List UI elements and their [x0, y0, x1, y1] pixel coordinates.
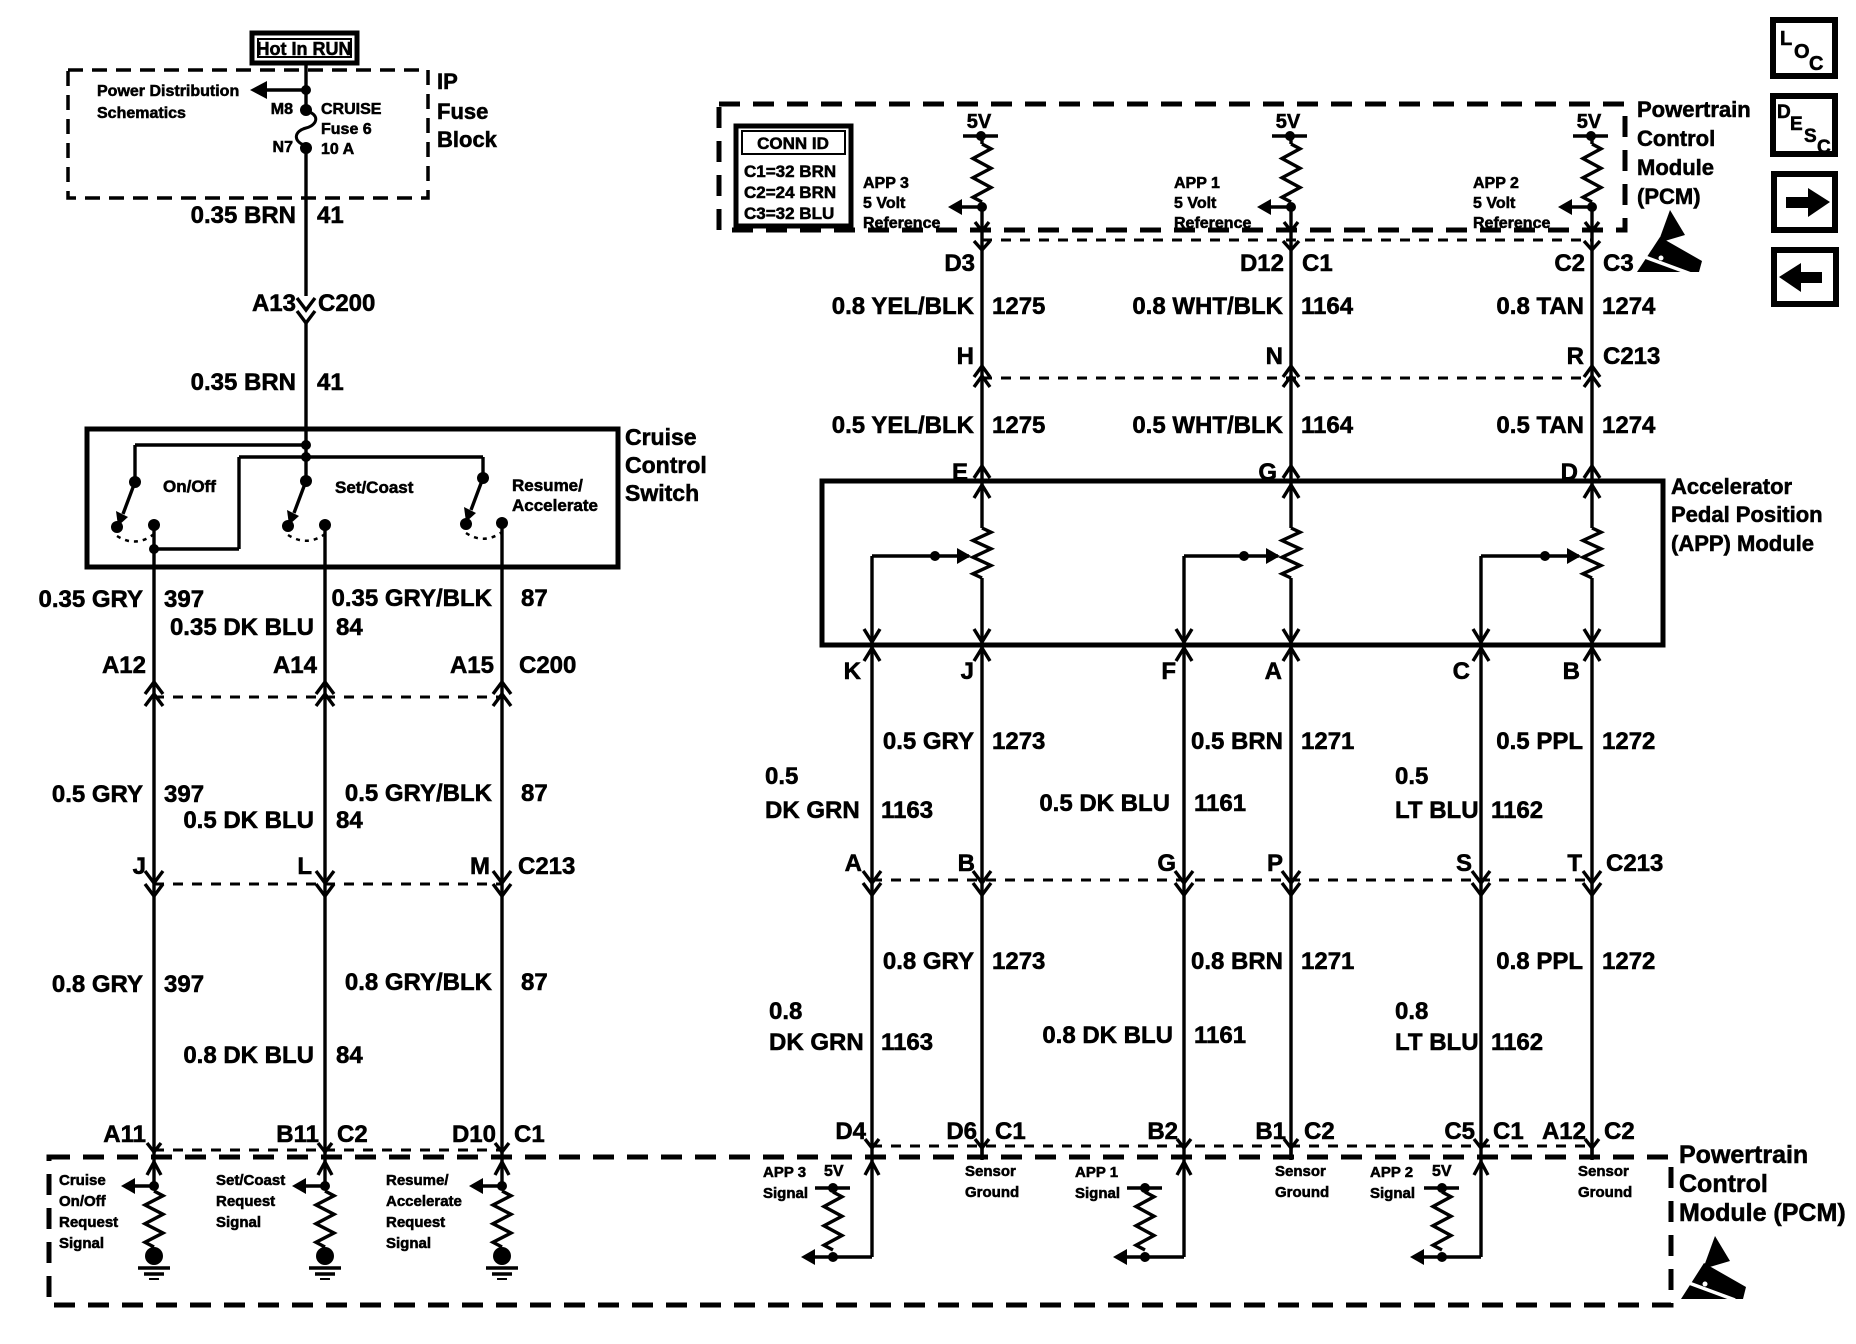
svg-text:1163: 1163	[881, 797, 933, 824]
label IP Fuse Block	[437, 69, 498, 152]
svg-text:N7: N7	[273, 139, 294, 156]
svg-text:397: 397	[164, 781, 204, 808]
svg-text:5 Volt: 5 Volt	[1174, 195, 1217, 212]
node junction APP 2 signal	[1437, 1252, 1447, 1262]
svg-text:APP 1: APP 1	[1075, 1164, 1118, 1181]
IP Fuse Block dashed box	[68, 70, 428, 198]
label Powertrain Control Module (PCM) bottom	[1679, 1141, 1846, 1227]
svg-text:C1=32 BRN: C1=32 BRN	[744, 162, 836, 181]
wire Set/Coast request signal entry	[318, 1159, 332, 1186]
svg-text:Resume/: Resume/	[386, 1172, 449, 1189]
svg-text:Reference: Reference	[863, 215, 940, 232]
svg-text:J: J	[961, 658, 974, 685]
svg-text:C2: C2	[1554, 250, 1585, 277]
svg-text:(PCM): (PCM)	[1637, 184, 1701, 209]
resistor APP 2 signal pull	[1433, 1192, 1451, 1250]
wire internal arrow APP 1 signal	[1113, 1249, 1184, 1265]
wire 397 GRY On/Off request	[152, 525, 155, 1159]
svg-text:CONN ID: CONN ID	[757, 134, 829, 153]
wire sensor ground stub A12	[1590, 1146, 1593, 1160]
svg-text:C213: C213	[518, 853, 575, 880]
label Sensor Ground	[965, 1163, 1019, 1201]
svg-text:Module (PCM): Module (PCM)	[1679, 1199, 1846, 1227]
svg-text:APP 2: APP 2	[1473, 175, 1519, 192]
svg-text:Ground: Ground	[965, 1184, 1019, 1201]
value label 0.35 BRN 41 (lower)	[191, 369, 344, 396]
svg-text:CRUISE: CRUISE	[321, 101, 382, 118]
svg-text:DK GRN: DK GRN	[769, 1029, 864, 1056]
svg-text:1274: 1274	[1602, 293, 1656, 320]
svg-text:APP 3: APP 3	[863, 175, 909, 192]
connector C213 pins J L M	[133, 853, 576, 880]
label Cruise On/Off Request Signal	[59, 1172, 118, 1252]
wire APP sensor 2 wiper output	[1473, 556, 1489, 645]
svg-text:M8: M8	[271, 101, 293, 118]
label Cruise Control Switch	[625, 424, 707, 506]
svg-text:0.8: 0.8	[769, 998, 802, 1025]
wire APP 2 reference exit	[1585, 207, 1599, 231]
svg-text:C2: C2	[1304, 1118, 1335, 1145]
svg-text:1271: 1271	[1301, 948, 1354, 975]
wire APP sensor 1 wiper output	[1176, 556, 1192, 645]
label APP 1 Signal 5V	[1075, 1164, 1120, 1202]
wire 1274 TAN upper	[1590, 230, 1593, 481]
node junction APP 1 reference	[1286, 202, 1296, 212]
svg-text:0.8 GRY/BLK: 0.8 GRY/BLK	[345, 969, 493, 996]
svg-text:E: E	[1790, 114, 1803, 135]
svg-text:T: T	[1567, 850, 1582, 877]
label Set/Coast Request Signal	[216, 1172, 285, 1231]
value label 0.5 GRY 397	[52, 781, 204, 808]
label APP 2 5 Volt Reference	[1473, 175, 1550, 232]
svg-text:Accelerator: Accelerator	[1671, 474, 1793, 499]
ground via ball terminal	[309, 1247, 341, 1279]
svg-text:APP 3: APP 3	[763, 1164, 806, 1181]
potentiometer APP sensor 3 element	[973, 481, 991, 645]
svg-text:Hot In RUN: Hot In RUN	[257, 39, 352, 59]
svg-text:D: D	[1777, 102, 1791, 123]
svg-text:0.35 BRN: 0.35 BRN	[191, 202, 296, 229]
cruise control switch box S1	[87, 429, 618, 567]
label CRUISE Fuse 6 10 A	[321, 101, 382, 158]
svg-text:C5: C5	[1444, 1118, 1475, 1145]
wire sensor ground stub B1	[1289, 1146, 1292, 1160]
svg-text:1272: 1272	[1602, 948, 1655, 975]
svg-text:C200: C200	[318, 290, 375, 317]
wire 87 GRY/BLK Resume/Accelerate request	[500, 523, 503, 1159]
svg-text:0.8: 0.8	[1395, 998, 1428, 1025]
svg-text:Request: Request	[386, 1214, 445, 1231]
APP module exit pins K J F A C B	[844, 648, 1600, 685]
connector C200 dashed line and chevrons	[145, 682, 511, 706]
svg-text:Control: Control	[1679, 1170, 1768, 1198]
PCM left connector dashed line and chevrons	[147, 1143, 509, 1152]
svg-text:C: C	[1817, 137, 1831, 158]
svg-text:5V: 5V	[1432, 1163, 1452, 1180]
CONN ID table	[736, 126, 851, 226]
potentiometer APP sensor 1 wiper	[1184, 548, 1280, 564]
svg-text:D4: D4	[835, 1118, 866, 1145]
svg-text:LT BLU: LT BLU	[1395, 797, 1479, 824]
label Sensor Ground	[1578, 1163, 1632, 1201]
svg-text:Module: Module	[1637, 155, 1714, 180]
value label 0.5 GRY 1273	[883, 728, 1046, 755]
svg-text:1274: 1274	[1602, 412, 1656, 439]
wire 1164 WHT/BLK upper	[1289, 230, 1292, 481]
wire internal arrow APP 2 signal	[1410, 1249, 1481, 1265]
node junction APP 3 signal	[828, 1252, 838, 1262]
value label 0.8 GRY 1273	[883, 948, 1046, 975]
svg-text:APP 1: APP 1	[1174, 175, 1220, 192]
svg-text:0.5 TAN: 0.5 TAN	[1496, 412, 1584, 439]
svg-text:S: S	[1804, 126, 1817, 147]
value label 0.8 DK BLU 1161	[1042, 1022, 1246, 1049]
svg-text:Cruise: Cruise	[625, 424, 697, 450]
svg-text:APP 2: APP 2	[1370, 1164, 1413, 1181]
svg-text:0.35 DK BLU: 0.35 DK BLU	[170, 614, 314, 641]
wire 1162 LT BLU	[1479, 645, 1482, 1159]
label Resume/Accelerate	[512, 476, 598, 515]
svg-text:87: 87	[521, 969, 548, 996]
label APP 3 5 Volt Reference	[863, 175, 940, 232]
svg-text:1273: 1273	[992, 948, 1045, 975]
svg-text:Sensor: Sensor	[1578, 1163, 1629, 1180]
svg-text:F: F	[1161, 658, 1176, 685]
svg-text:0.8 WHT/BLK: 0.8 WHT/BLK	[1132, 293, 1283, 320]
value label 0.35 DK BLU 84	[170, 614, 363, 641]
svg-text:Signal: Signal	[763, 1185, 808, 1202]
svg-text:C213: C213	[1603, 343, 1660, 370]
svg-text:0.8 GRY: 0.8 GRY	[883, 948, 974, 975]
accelerator pedal position APP module box	[822, 481, 1663, 645]
node Hot In RUN power tag	[252, 33, 357, 63]
svg-text:0.8 TAN: 0.8 TAN	[1496, 293, 1584, 320]
value label 0.8 GRY/BLK 87	[345, 969, 548, 996]
svg-text:397: 397	[164, 971, 204, 998]
connector C200 pins A12 A14 A15	[102, 652, 576, 679]
svg-text:Reference: Reference	[1473, 215, 1550, 232]
svg-text:0.5 BRN: 0.5 BRN	[1191, 728, 1283, 755]
svg-text:1164: 1164	[1301, 293, 1354, 320]
svg-text:5V: 5V	[1577, 111, 1602, 133]
svg-text:41: 41	[317, 202, 344, 229]
svg-text:Powertrain: Powertrain	[1679, 1141, 1808, 1169]
svg-text:A: A	[1265, 658, 1282, 685]
label APP 2 Signal 5V	[1370, 1163, 1452, 1202]
powertrain control module PCM dashed box (bottom)	[49, 1157, 1671, 1305]
svg-text:C213: C213	[1606, 850, 1663, 877]
svg-text:Sensor: Sensor	[965, 1163, 1016, 1180]
value label 0.5 PPL 1272	[1496, 728, 1655, 755]
svg-text:87: 87	[521, 585, 548, 612]
value label 0.5 DK BLU 84	[183, 807, 363, 834]
potentiometer APP sensor 2 element	[1583, 481, 1601, 645]
wire APP 1 signal entry	[1177, 1159, 1191, 1257]
value label 0.8 DK BLU 84	[183, 1042, 363, 1069]
value label 0.8 GRY 397	[52, 971, 204, 998]
value label 0.5 TAN 1274	[1496, 412, 1656, 439]
value label 0.5 DK GRN 1163	[765, 763, 933, 824]
svg-text:L: L	[297, 853, 312, 880]
wire 1161 DK BLU	[1182, 645, 1185, 1159]
svg-text:N: N	[1266, 343, 1283, 370]
wire internal arrow Cruise	[121, 1178, 154, 1194]
switch Resume/Accelerate pivot	[477, 472, 489, 484]
label Power Distribution Schematics	[97, 83, 239, 122]
label Set/Coast	[335, 478, 414, 497]
svg-text:1164: 1164	[1301, 412, 1354, 439]
svg-text:0.5 DK BLU: 0.5 DK BLU	[183, 807, 314, 834]
wire 41 BRN from C200 to cruise switch	[304, 323, 307, 431]
fuse F6 CRUISE element	[296, 111, 315, 148]
svg-text:Control: Control	[625, 452, 707, 478]
svg-text:Fuse 6: Fuse 6	[321, 121, 372, 138]
connector C213 pins A B G P S T	[845, 850, 1664, 877]
label APP 3 Signal 5V	[763, 1163, 844, 1202]
button previous arrow	[1774, 250, 1836, 304]
wire APP sensor 3 wiper output	[864, 556, 880, 645]
svg-text:B1: B1	[1255, 1118, 1286, 1145]
svg-text:5 Volt: 5 Volt	[1473, 195, 1516, 212]
wire 1271 BRN	[1289, 645, 1292, 1159]
fuse F6 CRUISE terminal N7	[273, 139, 312, 156]
svg-text:0.5 DK BLU: 0.5 DK BLU	[1039, 790, 1170, 817]
wire internal arrow Resume/	[469, 1178, 502, 1194]
potentiometer APP sensor 3 wiper	[872, 548, 971, 564]
wire On/Off output loop to bus	[154, 457, 239, 549]
svg-text:1163: 1163	[881, 1029, 933, 1056]
svg-text:1275: 1275	[992, 293, 1045, 320]
svg-text:0.5: 0.5	[765, 763, 798, 790]
svg-text:C1: C1	[1493, 1118, 1524, 1145]
svg-text:0.8 DK BLU: 0.8 DK BLU	[1042, 1022, 1173, 1049]
svg-text:K: K	[844, 658, 862, 685]
node junction Resume/ request	[497, 1181, 507, 1191]
svg-text:1273: 1273	[992, 728, 1045, 755]
ESD warning symbol bottom	[1681, 1236, 1746, 1300]
svg-text:0.5 GRY: 0.5 GRY	[883, 728, 974, 755]
value label 0.5 WHT/BLK 1164	[1132, 412, 1353, 439]
button next arrow	[1774, 174, 1835, 230]
svg-text:C1: C1	[995, 1118, 1026, 1145]
node feed junction upper	[301, 440, 311, 450]
potentiometer APP sensor 1 element	[1282, 481, 1300, 645]
value label 0.5 LT BLU 1162	[1395, 763, 1543, 824]
svg-text:Signal: Signal	[216, 1214, 261, 1231]
svg-text:M: M	[470, 853, 490, 880]
svg-text:A11: A11	[103, 1121, 146, 1148]
wire to power distribution schematics with arrow	[250, 81, 306, 99]
svg-text:B: B	[1563, 658, 1580, 685]
svg-text:0.8 GRY: 0.8 GRY	[52, 971, 143, 998]
resistor APP 2 5 volt reference	[1583, 136, 1601, 202]
PCM connector pins D4 D6 C1 B2 B1 C2 C5 C1 A12 C2	[835, 1118, 1634, 1145]
svg-text:0.5 WHT/BLK: 0.5 WHT/BLK	[1132, 412, 1283, 439]
wire internal arrow APP 1 reference	[1257, 199, 1291, 215]
potentiometer APP sensor 2 wiper	[1481, 548, 1581, 564]
value label 0.35 GRY 397	[39, 586, 205, 613]
svg-text:B11: B11	[276, 1121, 319, 1148]
label Accelerator Pedal Position (APP) Module	[1671, 474, 1823, 556]
value label 0.8 TAN 1274	[1496, 293, 1656, 320]
APP module pins E G D	[952, 459, 1600, 486]
switch Set/Coast pivot	[300, 475, 312, 487]
node 5V supply APP 2 signal	[1424, 1183, 1459, 1193]
wire internal arrow APP 3 reference	[948, 199, 982, 215]
svg-text:Sensor: Sensor	[1275, 1163, 1326, 1180]
wire internal arrow APP 3 signal	[801, 1249, 872, 1265]
resistor APP 1 5 volt reference	[1282, 136, 1300, 202]
svg-text:5V: 5V	[967, 111, 992, 133]
value label 0.5 YEL/BLK 1275	[832, 412, 1046, 439]
svg-text:Pedal Position: Pedal Position	[1671, 502, 1823, 527]
PCM connector pins A11 B11 C2 D10 C1	[103, 1121, 544, 1148]
wire internal arrow APP 2 reference	[1558, 199, 1592, 215]
svg-text:On/Off: On/Off	[59, 1193, 107, 1210]
switch Resume/Accelerate contacts with dashed arc	[460, 517, 508, 539]
svg-text:10 A: 10 A	[321, 141, 355, 158]
svg-text:1161: 1161	[1194, 1022, 1246, 1049]
value label 0.8 PPL 1272	[1496, 948, 1655, 975]
resistor APP 3 5 volt reference	[973, 136, 991, 202]
svg-text:A13: A13	[252, 290, 296, 317]
svg-text:Request: Request	[216, 1193, 275, 1210]
svg-text:G: G	[1157, 850, 1176, 877]
svg-text:Request: Request	[59, 1214, 118, 1231]
wire 84 DK BLU Set/Coast request	[323, 525, 326, 1159]
svg-text:397: 397	[164, 586, 204, 613]
wire sensor ground stub D6	[980, 1146, 983, 1160]
label APP 1 5 Volt Reference	[1174, 175, 1251, 232]
svg-text:84: 84	[336, 807, 363, 834]
svg-text:1162: 1162	[1491, 797, 1543, 824]
wire 41 BRN from fuse to C200	[304, 148, 307, 296]
node 5V supply APP 3 signal	[815, 1183, 850, 1193]
svg-text:84: 84	[336, 614, 363, 641]
svg-text:0.5 PPL: 0.5 PPL	[1496, 728, 1583, 755]
resistor APP 3 signal pull	[824, 1192, 842, 1250]
value label 0.5 DK BLU 1161	[1039, 790, 1246, 817]
value label 0.8 BRN 1271	[1191, 948, 1354, 975]
ground via ball terminal	[486, 1247, 518, 1279]
svg-text:0.8 PPL: 0.8 PPL	[1496, 948, 1583, 975]
wire feed bus inside switch	[304, 431, 307, 481]
wire bus to Resume pivot	[239, 457, 483, 478]
svg-text:5 Volt: 5 Volt	[863, 195, 906, 212]
svg-text:0.35 BRN: 0.35 BRN	[191, 369, 296, 396]
resistor APP 1 signal pull	[1136, 1192, 1154, 1250]
connector C213 pins H N R	[957, 343, 1661, 370]
svg-text:Signal: Signal	[59, 1235, 104, 1252]
connector C213 dashed line right	[974, 366, 1600, 387]
svg-text:D12: D12	[1240, 250, 1284, 277]
fuse F6 CRUISE terminal M8	[271, 101, 312, 118]
svg-text:0.5 GRY/BLK: 0.5 GRY/BLK	[345, 780, 493, 807]
svg-text:C1: C1	[514, 1121, 545, 1148]
svg-text:Block: Block	[437, 127, 498, 152]
node On/Off output junction	[149, 544, 159, 554]
node junction APP 1 signal	[1140, 1252, 1150, 1262]
value label 0.5 BRN 1271	[1191, 728, 1354, 755]
svg-text:B2: B2	[1147, 1118, 1178, 1145]
connector dashed line D3 row	[974, 240, 1600, 250]
connector C213 dashed line and chevrons	[145, 871, 511, 896]
wire APP 2 signal entry	[1474, 1159, 1488, 1257]
svg-text:O: O	[1794, 41, 1810, 63]
label Powertrain Control Module (PCM) top	[1637, 97, 1751, 209]
svg-text:LT BLU: LT BLU	[1395, 1029, 1479, 1056]
svg-text:Ground: Ground	[1275, 1184, 1329, 1201]
value label 0.8 LT BLU 1162	[1395, 998, 1543, 1056]
switch Resume/Accelerate arm	[464, 478, 483, 522]
svg-text:Accelerate: Accelerate	[512, 496, 598, 515]
svg-text:0.5 GRY: 0.5 GRY	[52, 781, 143, 808]
value label 0.5 GRY/BLK 87	[345, 780, 548, 807]
svg-text:C2: C2	[337, 1121, 368, 1148]
svg-text:C: C	[1453, 658, 1470, 685]
svg-text:A12: A12	[102, 652, 146, 679]
svg-text:C: C	[1809, 53, 1823, 75]
svg-text:C3=32 BLU: C3=32 BLU	[744, 204, 834, 223]
value label 0.8 WHT/BLK 1164	[1132, 293, 1353, 320]
svg-text:A15: A15	[450, 652, 494, 679]
svg-text:DK GRN: DK GRN	[765, 797, 860, 824]
switch Set/Coast arm	[287, 481, 306, 525]
powertrain control module PCM dashed box (top)	[719, 104, 1625, 230]
value label 0.35 BRN 41 (upper)	[191, 202, 344, 229]
svg-text:Fuse: Fuse	[437, 99, 488, 124]
wire to On/Off pivot	[135, 445, 306, 482]
node 5V supply APP 3	[963, 111, 998, 141]
svg-text:5V: 5V	[824, 1163, 844, 1180]
value label 0.8 DK GRN 1163	[769, 998, 933, 1056]
svg-text:C2: C2	[1604, 1118, 1635, 1145]
wire Resume/ request signal entry	[495, 1159, 509, 1186]
svg-text:S: S	[1456, 850, 1472, 877]
svg-text:Control: Control	[1637, 126, 1715, 151]
switch On/Off contacts with dashed arc	[111, 519, 160, 542]
wire APP 3 reference exit	[975, 207, 989, 231]
svg-text:P: P	[1267, 850, 1283, 877]
ground via ball terminal	[138, 1247, 170, 1279]
button DESC	[1773, 96, 1835, 158]
svg-text:Signal: Signal	[1370, 1185, 1415, 1202]
svg-text:41: 41	[317, 369, 344, 396]
label Sensor Ground	[1275, 1163, 1329, 1201]
svg-text:R: R	[1567, 343, 1584, 370]
switch On/Off pivot	[129, 476, 141, 488]
svg-text:H: H	[957, 343, 974, 370]
svg-text:A12: A12	[1542, 1118, 1586, 1145]
PCM right connector dashed line and chevrons	[865, 1139, 1599, 1148]
wire feed from Hot In RUN into fuse block	[304, 63, 307, 109]
wire internal arrow Set/Coast	[292, 1178, 325, 1194]
wire Cruise request signal entry	[147, 1159, 161, 1186]
label Resume/ Accelerate Request Signal	[386, 1172, 462, 1252]
switch Set/Coast contacts with dashed arc	[282, 519, 331, 541]
svg-text:D10: D10	[452, 1121, 496, 1148]
label On/Off	[163, 477, 216, 496]
svg-text:On/Off: On/Off	[163, 477, 216, 496]
wire APP 3 signal entry	[865, 1159, 879, 1257]
node junction APP 3 reference	[977, 202, 987, 212]
node junction to power distribution	[301, 85, 311, 95]
connector C200 pin A13	[252, 290, 375, 323]
svg-text:5V: 5V	[1276, 111, 1301, 133]
wire 1272 PPL	[1590, 645, 1593, 1159]
node feed junction lower	[301, 452, 311, 462]
svg-text:Resume/: Resume/	[512, 476, 583, 495]
